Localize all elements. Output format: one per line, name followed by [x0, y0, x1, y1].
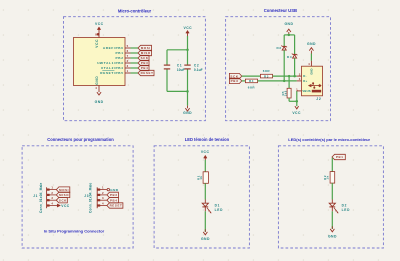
svg-text:PB4: PB4	[110, 198, 118, 202]
svg-text:LED(s) contrôlée(s) par le mic: LED(s) contrôlée(s) par le micro-contrôl…	[288, 137, 370, 142]
svg-text:8: 8	[95, 33, 97, 37]
svg-text:RESET: RESET	[110, 204, 123, 208]
svg-text:GND: GND	[307, 42, 316, 46]
svg-text:3: 3	[299, 77, 301, 81]
svg-text:4: 4	[51, 202, 53, 206]
svg-text:PB3: PB3	[110, 193, 118, 197]
svg-text:PB3: PB3	[141, 61, 149, 65]
svg-text:5: 5	[127, 44, 129, 48]
svg-text:GND: GND	[328, 235, 337, 239]
svg-text:1k5: 1k5	[283, 90, 287, 96]
svg-text:1: 1	[51, 186, 53, 190]
svg-text:RESET: RESET	[141, 71, 154, 75]
svg-text:PB4: PB4	[141, 66, 149, 70]
svg-text:J2: J2	[316, 97, 321, 101]
svg-text:PB2: PB2	[116, 56, 124, 60]
svg-text:1: 1	[296, 87, 298, 91]
svg-text:XTAL1/PB3: XTAL1/PB3	[101, 61, 124, 65]
svg-text:MISO: MISO	[59, 193, 69, 197]
svg-text:GND: GND	[95, 100, 104, 104]
svg-text:XTAL2/PB4: XTAL2/PB4	[101, 66, 124, 70]
svg-text:1: 1	[102, 186, 104, 190]
svg-text:MOSI: MOSI	[59, 188, 69, 192]
svg-text:VCC: VCC	[95, 22, 104, 26]
svg-text:GND: GND	[310, 68, 314, 74]
svg-text:D+: D+	[303, 79, 307, 83]
svg-text:SCK: SCK	[230, 74, 238, 78]
svg-text:1: 1	[127, 69, 129, 73]
svg-text:U2: U2	[97, 61, 102, 65]
svg-text:C2: C2	[194, 63, 199, 67]
svg-text:D4: D4	[287, 55, 292, 59]
svg-text:In Situ Programming Connector: In Situ Programming Connector	[44, 228, 105, 233]
svg-text:GND: GND	[284, 22, 293, 26]
svg-text:SCK: SCK	[141, 56, 149, 60]
svg-text:0.1uF: 0.1uF	[194, 68, 203, 72]
svg-text:4: 4	[102, 202, 104, 206]
svg-text:GND: GND	[110, 188, 119, 192]
svg-text:7: 7	[127, 54, 129, 58]
svg-text:PB3: PB3	[231, 79, 239, 83]
svg-text:3: 3	[102, 196, 104, 200]
svg-text:2: 2	[102, 191, 104, 195]
svg-text:MOSI: MOSI	[141, 46, 151, 50]
svg-text:10uF: 10uF	[177, 68, 185, 72]
svg-text:VCC: VCC	[61, 204, 69, 208]
svg-text:MISO: MISO	[141, 51, 151, 55]
svg-text:1k: 1k	[199, 175, 203, 179]
svg-text:PB1: PB1	[336, 155, 344, 159]
svg-text:C1: C1	[177, 63, 182, 67]
svg-text:3: 3	[127, 64, 129, 68]
svg-text:1k: 1k	[326, 175, 330, 179]
svg-text:VCC: VCC	[292, 111, 301, 115]
svg-text:D-: D-	[303, 74, 306, 78]
svg-text:Micro-contrôleur: Micro-contrôleur	[118, 9, 152, 14]
svg-text:LED: LED	[342, 208, 350, 212]
svg-text:3: 3	[51, 196, 53, 200]
svg-text:68R: 68R	[263, 69, 271, 73]
svg-text:VBUS: VBUS	[302, 89, 310, 93]
svg-text:GND: GND	[183, 111, 192, 115]
svg-text:LED témoin de tension: LED témoin de tension	[185, 137, 230, 142]
svg-text:R3: R3	[264, 74, 269, 78]
svg-text:2: 2	[299, 72, 301, 76]
svg-text:AREF/PB0: AREF/PB0	[103, 46, 124, 50]
svg-text:2: 2	[51, 191, 53, 195]
svg-text:D2: D2	[342, 204, 347, 208]
svg-text:J3: J3	[84, 194, 89, 198]
svg-text:LED: LED	[215, 208, 223, 212]
svg-text:D1: D1	[215, 204, 220, 208]
svg-text:Conn_01x04_Male: Conn_01x04_Male	[39, 183, 43, 213]
svg-text:2: 2	[127, 59, 129, 63]
svg-text:6: 6	[127, 49, 129, 53]
svg-text:VCC: VCC	[95, 39, 99, 48]
svg-text:D3: D3	[276, 46, 281, 50]
svg-text:J1: J1	[33, 194, 38, 198]
svg-text:4: 4	[95, 86, 97, 90]
svg-text:VCC: VCC	[184, 26, 193, 30]
svg-text:SCK: SCK	[59, 198, 67, 202]
svg-text:RESET/PB5: RESET/PB5	[100, 71, 123, 75]
svg-text:Connecteur USB: Connecteur USB	[264, 8, 297, 13]
svg-text:PB1: PB1	[116, 51, 124, 55]
svg-text:GND: GND	[95, 76, 99, 85]
svg-text:Connecteurs pour programmation: Connecteurs pour programmation	[47, 137, 114, 142]
svg-text:4: 4	[308, 62, 310, 66]
svg-text:R4: R4	[249, 79, 254, 83]
svg-text:VCC: VCC	[201, 150, 210, 154]
svg-text:GND: GND	[201, 237, 210, 241]
svg-text:68R: 68R	[248, 85, 256, 89]
